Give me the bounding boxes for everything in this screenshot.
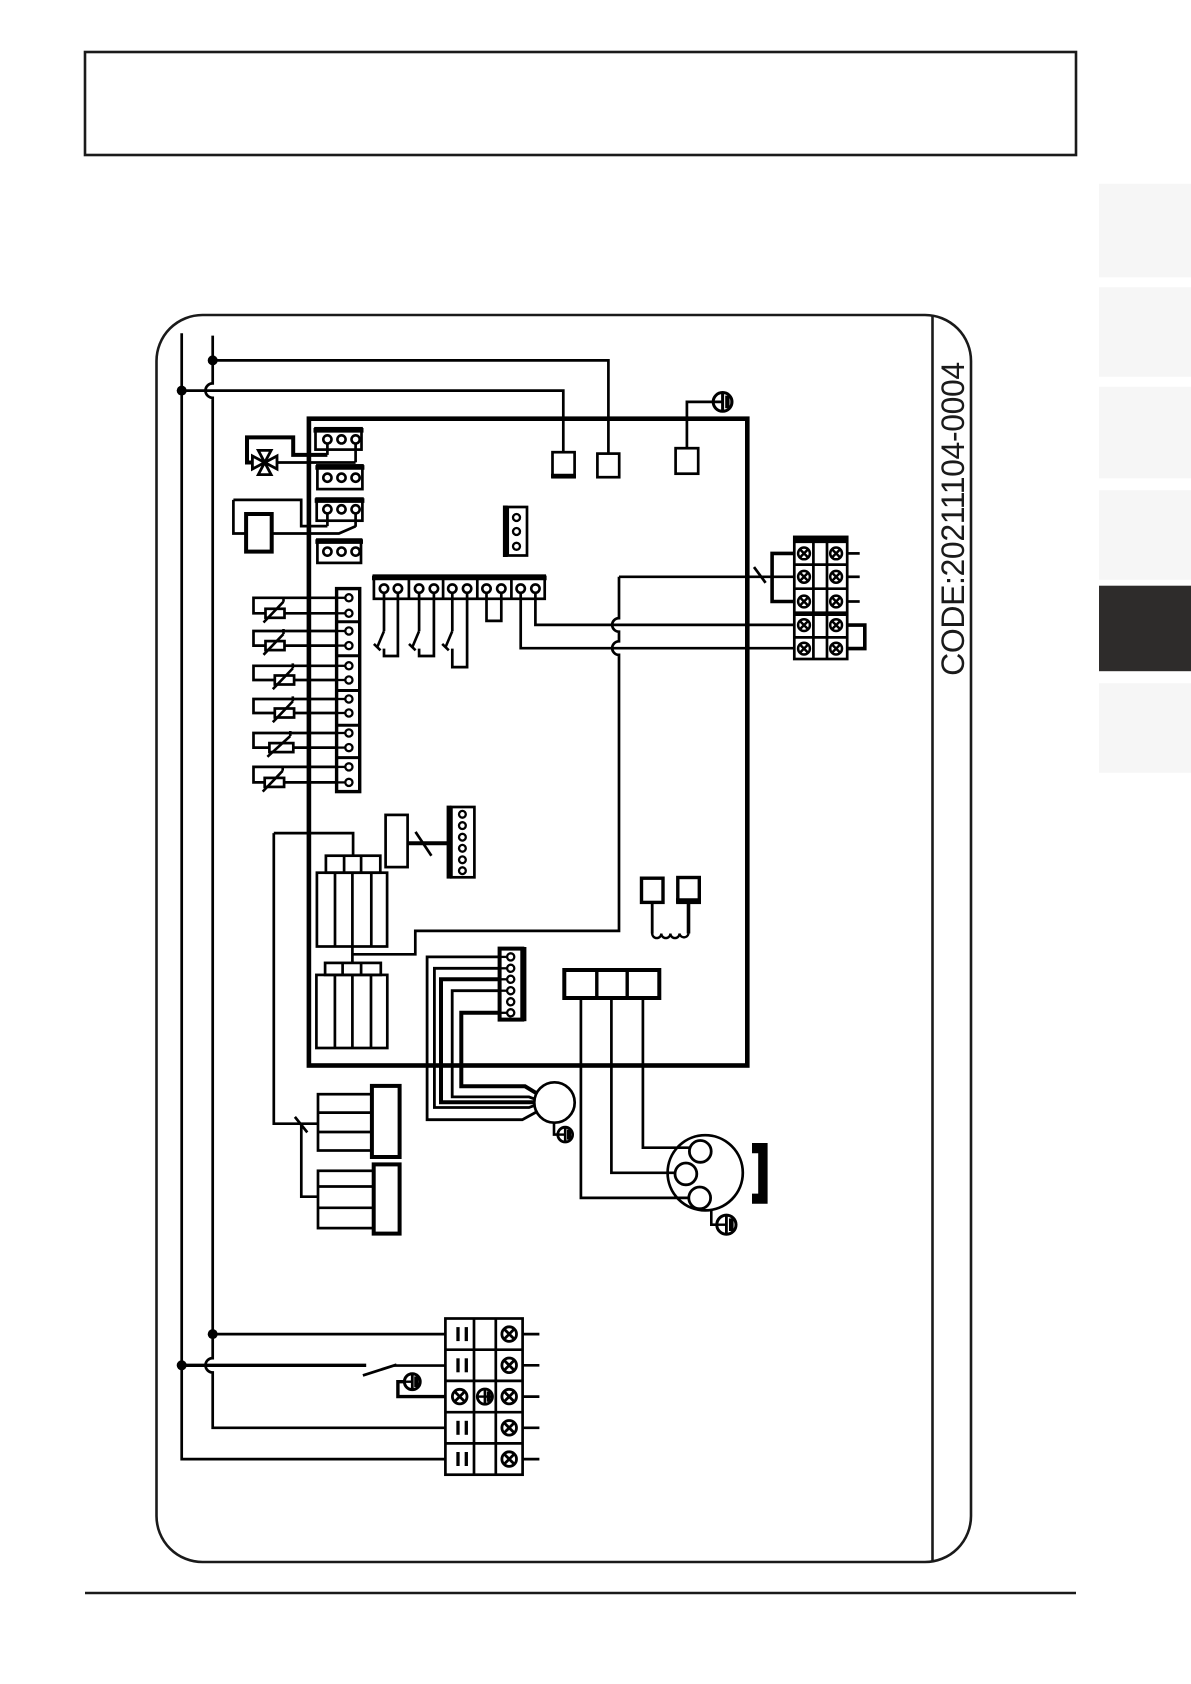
- earth screw E1 (top): [713, 393, 732, 412]
- thermistor RT2: [254, 629, 337, 655]
- X2 right stub row1: [847, 552, 860, 555]
- connector CN6 (6-pin): [447, 806, 475, 879]
- wire branch to relay K2: [301, 1124, 318, 1197]
- CN3 pin3 stem: [354, 513, 357, 526]
- chassis earth wire: [398, 1382, 446, 1397]
- box U3: [676, 448, 699, 474]
- sensor connector CN5 (6 sections): [337, 589, 360, 792]
- mains terminal block X4: [445, 1319, 522, 1475]
- door switch blade: [363, 1365, 397, 1376]
- wire CN8 pin4 to pump: [452, 991, 535, 1100]
- wire CN8 pin2 to pump: [434, 968, 535, 1107]
- junction dot C (bus L bottom): [208, 1329, 218, 1339]
- wire X3 right to plug pin1: [643, 998, 691, 1148]
- X2 screw terminals (circle-cross): [798, 548, 842, 655]
- CN1 pin1 stem: [326, 439, 329, 455]
- terminal block X2 (10 screws): [794, 537, 847, 659]
- CN5 pins: [337, 594, 353, 786]
- wire valve left loop to CN1 pin1: [247, 437, 327, 462]
- output terminal strip X1: [372, 576, 547, 599]
- contactor KM1 coil box A: [642, 878, 664, 902]
- KM1 stem A: [651, 902, 654, 933]
- junction dot D (bus N bottom): [177, 1360, 187, 1370]
- earth screw E2 (pump): [558, 1127, 573, 1142]
- thermistor RT1: [254, 597, 337, 623]
- index tab 6: [1099, 683, 1191, 773]
- wire CN8 pin6 to pump (thick): [461, 1013, 536, 1094]
- wire L to X4 row1: [213, 1333, 446, 1336]
- earth screw E4 (X4 middle): [477, 1389, 492, 1404]
- wire CN8 pin3 to pump (thick): [441, 979, 534, 1102]
- transformer T2: [316, 963, 387, 1048]
- connector CN3: [315, 499, 365, 521]
- thermistor RT5: [254, 731, 337, 757]
- jumper loop X1 cell4: [487, 593, 502, 621]
- X2 right loop rows 4-5: [847, 625, 865, 649]
- compressor plug P1: [668, 1135, 743, 1210]
- X4 fuse clips row1: [458, 1327, 466, 1341]
- break slash on row2 wire: [754, 567, 766, 583]
- CN3 pin1 stem: [326, 513, 329, 526]
- box U1 thick bottom: [551, 474, 576, 478]
- index tab 2: [1099, 287, 1191, 377]
- relay K1: [318, 1086, 400, 1157]
- wire N to box U1: [182, 391, 564, 453]
- signal wire (vertical with hops, to transformer): [352, 577, 619, 955]
- X4 right screws: [502, 1327, 517, 1467]
- box U2: [597, 454, 619, 478]
- header box: [85, 52, 1076, 155]
- wire switch to X4 row2: [394, 1364, 445, 1367]
- index tab 5 (active, black): [1099, 586, 1191, 672]
- break slash on CN6 wire: [416, 832, 432, 856]
- plug earth wire: [711, 1210, 717, 1225]
- connector CN4: [315, 540, 363, 563]
- index tab 3: [1099, 387, 1191, 479]
- wire X1 cell5 right to terminal row4: [535, 593, 794, 625]
- break slash on relay wire: [295, 1117, 307, 1133]
- power bus N (vertical): [182, 333, 446, 1459]
- auxiliary load M2 (rectangle): [246, 514, 272, 552]
- thermistor RT4: [254, 696, 337, 722]
- power bus L (vertical, hops over two wires): [205, 336, 445, 1428]
- compressor output strip X3 (3 cells): [564, 970, 659, 998]
- switch S2: [409, 593, 434, 656]
- X2 right stub row3: [847, 600, 860, 603]
- switch S3: [442, 593, 467, 667]
- X4 fuse clips row4: [458, 1421, 466, 1435]
- transformer link stub: [351, 947, 354, 963]
- pump earth wire: [554, 1123, 558, 1135]
- wire M2 right to CN3 pin3: [272, 526, 356, 533]
- relay K2: [318, 1164, 400, 1233]
- pump M1: [534, 1082, 574, 1122]
- connector CN1: [314, 428, 364, 449]
- switch S1: [374, 593, 398, 656]
- earth screw E3 (plug): [717, 1215, 736, 1234]
- wire L to box U2: [213, 360, 609, 453]
- mid connector CN7 (3-pin): [503, 506, 527, 558]
- X1 pins: [380, 584, 540, 592]
- wire X3 left to plug pin3: [581, 998, 689, 1198]
- connector CN8 (6-pin, to pump): [500, 947, 527, 1021]
- box U1: [553, 452, 575, 477]
- X4 fuse clips row5: [458, 1452, 466, 1466]
- index tab 4: [1099, 490, 1191, 580]
- thermistor RT6: [254, 766, 337, 792]
- wire U3 to earth screw: [687, 402, 723, 448]
- wire PCB to terminal row2: [619, 575, 794, 578]
- junction dot B (bus N top): [177, 386, 187, 396]
- diagram panel frame: [157, 315, 972, 1562]
- X2 left bracket jumper: [772, 553, 794, 601]
- KM1 coil (wavy): [652, 934, 688, 939]
- wire C1 to connector CN6: [408, 841, 448, 845]
- code strip divider line: [931, 315, 934, 1562]
- KM1 stem B: [687, 902, 691, 933]
- capacitor C1: [386, 815, 408, 867]
- wire valve right to CN1 pin3: [277, 461, 356, 464]
- X4 right stubs: [523, 1334, 540, 1459]
- connector CN2: [315, 465, 364, 489]
- X2 right stub row2: [847, 575, 860, 578]
- wire X3 mid to plug pin2: [611, 998, 675, 1173]
- junction dot A (bus L top): [208, 355, 218, 365]
- wire to transformer T1 primary: [274, 833, 353, 856]
- plug retainer bracket: [752, 1143, 768, 1204]
- PCB board outline: [309, 419, 747, 1066]
- motorized valve Y1 (4-triangle symbol): [252, 450, 277, 474]
- bottom separator line: [85, 1592, 1076, 1595]
- wire M2 left branch: [233, 500, 246, 534]
- contactor KM1 coil box B: [676, 878, 701, 903]
- index tab 1: [1099, 184, 1191, 277]
- wire left drop to relays: [274, 833, 318, 1124]
- X4 left screw row3: [452, 1389, 467, 1404]
- wire CN8 pin1 to pump: [427, 957, 536, 1120]
- wire N to switch: [182, 1364, 367, 1367]
- wire loop M2 left to CN3 pin1: [233, 500, 327, 526]
- svg-text:CODE:20211104-0004: CODE:20211104-0004: [935, 362, 971, 676]
- transformer T1: [317, 856, 387, 947]
- earth screw E5 (chassis): [404, 1374, 420, 1390]
- thermistor RT3: [254, 663, 337, 689]
- X4 fuse clips row2: [458, 1358, 466, 1372]
- wire X1 cell5 left to terminal row5: [521, 593, 795, 648]
- CN1 pin3 stem: [354, 439, 357, 462]
